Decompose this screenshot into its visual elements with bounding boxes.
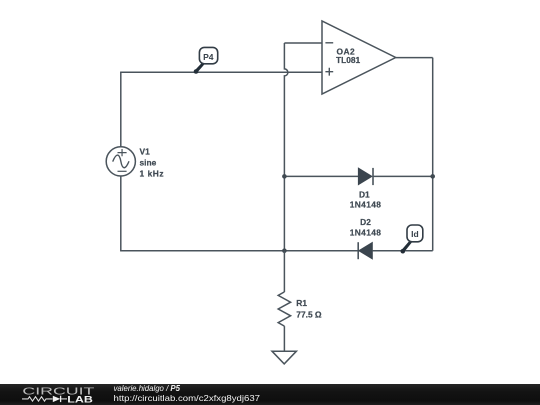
- node junction at output/D1: [430, 174, 435, 179]
- wire top net P4 from V1 to op-amp + input: [120, 71, 322, 73]
- diode D2: [358, 242, 372, 259]
- node label P4: [194, 47, 218, 73]
- svg-text:V1: V1: [140, 147, 151, 157]
- wire op-amp inverting input: [284, 42, 322, 44]
- svg-text:D2: D2: [360, 217, 371, 227]
- svg-text:TL081: TL081: [336, 55, 361, 65]
- wire right vertical output to bottom: [432, 58, 434, 251]
- node label Id: [401, 225, 423, 254]
- wire bottom right segment from D2 anode to output corner: [372, 250, 432, 252]
- R1 value label: [296, 298, 322, 320]
- wire R1 top lead: [283, 251, 285, 292]
- wire left vertical V1 top lead: [120, 72, 122, 147]
- footer logo CIRCUIT: [22, 386, 95, 397]
- diode D1: [358, 168, 373, 185]
- footer author line: [114, 383, 181, 393]
- svg-text:1 kHz: 1 kHz: [140, 169, 165, 179]
- OA2 value label: [336, 47, 361, 66]
- svg-text:http://circuitlab.com/c2xfxg8y: http://circuitlab.com/c2xfxg8ydj637: [114, 393, 261, 403]
- svg-text:valerie.hidalgo / P5: valerie.hidalgo / P5: [114, 383, 181, 393]
- svg-text:R1: R1: [296, 298, 307, 308]
- wire bottom left segment to D2 cathode: [120, 250, 358, 252]
- wire left vertical V1 bottom lead: [120, 176, 122, 251]
- wire R1 bottom lead: [283, 326, 285, 351]
- svg-text:D1: D1: [359, 189, 370, 199]
- D2 value label: [350, 217, 381, 237]
- svg-text:P4: P4: [203, 52, 214, 62]
- wire op-amp output: [396, 57, 433, 59]
- V1 value label: [140, 147, 165, 179]
- footer url line: [114, 393, 261, 403]
- svg-text:Id: Id: [411, 229, 419, 239]
- footer logo LAB: [67, 394, 93, 404]
- ground: [272, 351, 296, 364]
- resistor R1: [278, 292, 290, 326]
- wire D1 cathode to output branch: [373, 175, 433, 177]
- svg-text:1N4148: 1N4148: [350, 228, 381, 238]
- node junction at feedback/bottom wire: [282, 248, 287, 253]
- svg-text:77.5 Ω: 77.5 Ω: [296, 310, 322, 320]
- op-amp OA2: [322, 21, 396, 94]
- voltage source V1: [106, 147, 135, 176]
- svg-text:1N4148: 1N4148: [350, 200, 381, 210]
- wire feedback vertical with hop over P4 net: [284, 43, 288, 251]
- node junction at feedback/D1: [282, 174, 287, 179]
- footer bar: [0, 384, 540, 405]
- svg-text:sine: sine: [140, 158, 157, 168]
- svg-text:LAB: LAB: [67, 394, 93, 404]
- footer logo resistor-diode mark: [22, 396, 67, 402]
- D1 value label: [350, 189, 381, 209]
- wire D1 anode from feedback node: [284, 175, 358, 177]
